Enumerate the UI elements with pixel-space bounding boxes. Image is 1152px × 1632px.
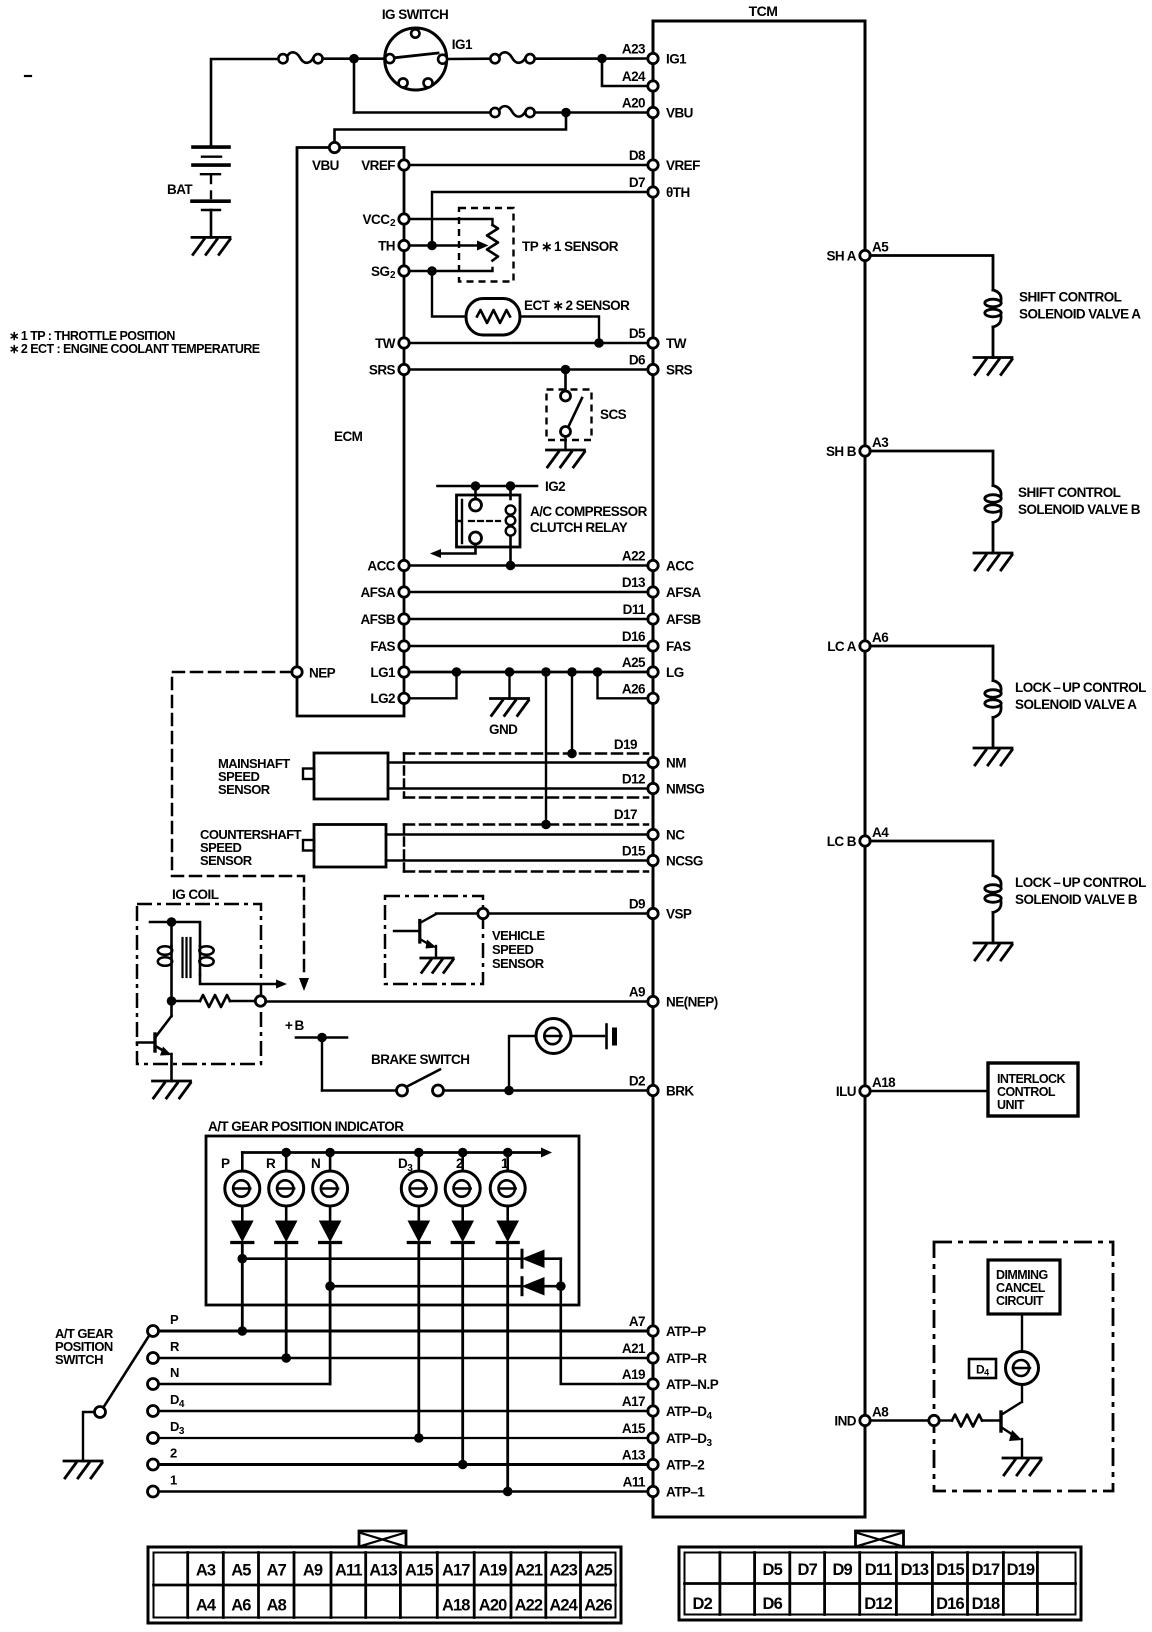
wire +B stub <box>296 1036 347 1039</box>
TCM pin D5 TW <box>648 338 658 348</box>
svg-text:LC B: LC B <box>827 834 857 849</box>
svg-text:AFSB: AFSB <box>360 612 395 627</box>
svg-text:SOLENOID VALVE A: SOLENOID VALVE A <box>1019 307 1141 322</box>
svg-text:D2: D2 <box>629 1074 645 1089</box>
node ig coil top <box>167 917 177 927</box>
ground solenoid <box>974 553 1012 570</box>
node coil-ACC junction <box>506 561 516 571</box>
wire VBU to ECM <box>335 113 567 143</box>
wire bus to lamp 2 <box>285 1153 288 1172</box>
TCM pin D9 VSP <box>648 908 658 918</box>
svg-text:INTERLOCK: INTERLOCK <box>997 1072 1065 1086</box>
svg-text:A7: A7 <box>267 1562 287 1580</box>
wire coil to ground <box>992 327 995 358</box>
switch contact D <box>148 1433 159 1444</box>
svg-text:A6: A6 <box>231 1597 251 1615</box>
node bus junction <box>414 1148 424 1158</box>
switch contact P <box>148 1326 159 1337</box>
TCM pin NM <box>648 757 658 767</box>
wire bus to lamp 4 <box>417 1153 420 1172</box>
wire ATP-P <box>159 1330 649 1333</box>
IG switch <box>385 28 447 90</box>
resistor dimming <box>952 1415 982 1427</box>
node LG-GND <box>505 667 515 677</box>
node bus junction <box>503 1148 513 1158</box>
svg-text:SENSOR: SENSOR <box>218 782 271 797</box>
TCM pin NC <box>648 829 658 839</box>
svg-text:ATP–P: ATP–P <box>666 1324 706 1339</box>
node LG-shield2 <box>541 667 551 677</box>
ground solenoid <box>974 748 1012 765</box>
wire relay contact feed <box>474 486 477 498</box>
svg-text:A17: A17 <box>622 1394 645 1409</box>
connector A grid <box>186 1553 189 1618</box>
svg-text:ATP–R: ATP–R <box>666 1351 707 1366</box>
wire secondary output with arrow <box>200 975 276 984</box>
A/T gear position indicator box <box>206 1136 579 1305</box>
node IG2 right <box>506 481 516 491</box>
wire fuse3 to pin A20 <box>535 111 648 114</box>
wire SG2 junction down to ECT <box>432 271 466 317</box>
diode under lamp 4 <box>408 1221 429 1241</box>
wire NC <box>386 833 648 836</box>
svg-text:A6: A6 <box>872 630 889 645</box>
svg-text:A15: A15 <box>622 1421 646 1436</box>
wire bus to lamp 3 <box>329 1153 332 1172</box>
NEP dashed route <box>172 672 304 978</box>
TCM pin A11 ATP&#8211;1 <box>648 1486 658 1496</box>
solenoid coil <box>993 486 1001 496</box>
battery symbol at lamp <box>605 1025 608 1049</box>
svg-text:A21: A21 <box>622 1341 646 1356</box>
ground solenoid <box>974 943 1012 960</box>
wire +B down to brake switch <box>321 1038 323 1091</box>
A/C compressor clutch relay box <box>457 495 521 547</box>
ignition coil transformer <box>170 922 173 946</box>
ECM pin SRS <box>399 364 409 374</box>
TCM pin A5 SH A <box>860 250 870 260</box>
junction node top rail <box>349 54 359 64</box>
svg-text:TP ∗ 1 SENSOR: TP ∗ 1 SENSOR <box>522 239 619 254</box>
svg-text:A9: A9 <box>303 1562 323 1580</box>
wire ATP-N <box>159 1383 331 1385</box>
svg-text:D5: D5 <box>763 1561 783 1579</box>
svg-text:IND: IND <box>834 1413 856 1428</box>
wire switch to fuse2 <box>447 57 490 60</box>
svg-text:A18: A18 <box>442 1597 470 1615</box>
ECM pin TW <box>399 338 409 348</box>
svg-text:D6: D6 <box>763 1595 783 1613</box>
svg-text:TW: TW <box>666 336 687 351</box>
svg-text:CIRCUIT: CIRCUIT <box>996 1294 1044 1308</box>
ground GND <box>491 699 529 716</box>
svg-text:AFSA: AFSA <box>360 585 395 600</box>
connector A outer <box>148 1547 621 1623</box>
svg-text:LG1: LG1 <box>370 665 396 680</box>
node +B <box>317 1033 327 1043</box>
wire VBU feed <box>354 111 490 114</box>
solenoid coil <box>993 681 1001 691</box>
interlock control unit box <box>988 1063 1078 1116</box>
dimming cancel dash-dot box <box>934 1242 1113 1491</box>
wire relay coil to ACC <box>509 536 512 566</box>
svg-text:A3: A3 <box>872 435 889 450</box>
terminal NE output <box>255 996 265 1006</box>
ground battery <box>192 237 230 254</box>
svg-text:VBU: VBU <box>666 106 693 121</box>
diode D row2 <box>523 1278 544 1295</box>
svg-text:VSP: VSP <box>666 907 692 922</box>
svg-text:R: R <box>266 1156 276 1171</box>
svg-text:ECT ∗ 2 SENSOR: ECT ∗ 2 SENSOR <box>524 298 630 313</box>
wire N.P column <box>561 1259 648 1384</box>
solenoid coil <box>993 876 1001 886</box>
svg-text:2: 2 <box>456 1156 463 1171</box>
ECM pin TH <box>399 240 409 250</box>
diode under lamp 5 <box>452 1221 473 1241</box>
TCM pin A13 ATP&#8211;2 <box>648 1459 658 1469</box>
indicator lamp D <box>401 1171 436 1206</box>
wire battery to top rail <box>211 59 279 147</box>
connector D grid <box>719 1553 722 1615</box>
svg-text:TW: TW <box>375 336 396 351</box>
svg-text:A8: A8 <box>872 1405 889 1420</box>
svg-text:A26: A26 <box>584 1597 612 1615</box>
svg-text:D8: D8 <box>629 148 646 163</box>
svg-text:ACC: ACC <box>367 558 395 573</box>
wire ATP-1 <box>159 1490 649 1492</box>
junction node A23/A24 <box>597 54 607 64</box>
ECM module box <box>297 148 404 717</box>
svg-text:IG1: IG1 <box>666 52 687 67</box>
svg-text:CLUTCH RELAY: CLUTCH RELAY <box>530 520 628 535</box>
TCM pin D15 NCSG <box>648 855 658 865</box>
wire IND <box>870 1419 929 1421</box>
svg-text:SRS: SRS <box>666 363 693 378</box>
ECM pin FAS <box>399 641 409 651</box>
node SRS junction <box>561 365 571 375</box>
wire coil to ground <box>992 523 995 554</box>
svg-text:D9: D9 <box>629 897 645 912</box>
svg-text:D12: D12 <box>864 1595 892 1613</box>
wire to brake switch <box>322 1089 397 1091</box>
ground switch <box>64 1461 102 1478</box>
svg-text:LC A: LC A <box>827 639 857 654</box>
svg-text:N: N <box>170 1365 179 1380</box>
svg-text:SH A: SH A <box>826 248 856 263</box>
wire SG2 to potentiometer <box>409 268 493 271</box>
relay contact terminals <box>470 499 482 511</box>
ground dimming <box>1003 1458 1041 1475</box>
svg-text:BAT: BAT <box>167 182 193 197</box>
wire ACC <box>409 564 648 567</box>
wire solenoid at 451 <box>870 451 993 486</box>
svg-text:NEP: NEP <box>309 666 336 681</box>
svg-text:NE(NEP): NE(NEP) <box>666 995 718 1010</box>
svg-text:FAS: FAS <box>370 639 395 654</box>
label D4 box <box>969 1359 996 1378</box>
svg-text:A23: A23 <box>622 42 646 57</box>
svg-text:NCSG: NCSG <box>666 854 703 869</box>
svg-text:NC: NC <box>666 828 685 843</box>
svg-text:A/T GEAR POSITION INDICATOR: A/T GEAR POSITION INDICATOR <box>208 1119 404 1134</box>
wire ATP-2 <box>159 1463 649 1466</box>
wire lamp to diode <box>329 1206 332 1221</box>
wire lamp to diode <box>461 1206 464 1221</box>
svg-text:A/C COMPRESSOR: A/C COMPRESSOR <box>530 504 648 519</box>
svg-text:A24: A24 <box>622 69 646 84</box>
svg-text:SH B: SH B <box>826 444 857 459</box>
wire NE(NEP) to TCM <box>266 1000 648 1002</box>
svg-text:D12: D12 <box>622 772 645 787</box>
ground IG coil <box>153 1081 191 1098</box>
wire bus to lamp 6 <box>506 1153 509 1172</box>
ECM pin AFSB <box>399 614 409 624</box>
svg-text:SOLENOID VALVE B: SOLENOID VALVE B <box>1018 502 1141 517</box>
wire lamp to diode <box>417 1206 420 1221</box>
battery BAT <box>193 145 229 149</box>
indicator lamp 1 <box>490 1171 525 1206</box>
TCM pin D2 BRK <box>648 1085 658 1095</box>
TCM pin D16 FAS <box>648 641 658 651</box>
svg-text:TH: TH <box>378 238 395 253</box>
svg-text:A20: A20 <box>479 1597 507 1615</box>
node brake lamp junction <box>504 1086 514 1096</box>
node ig coil resistor junction <box>167 996 177 1006</box>
node shield1-D19 <box>567 749 577 759</box>
svg-text:FAS: FAS <box>666 639 691 654</box>
TCM pin A22 ACC <box>648 560 658 570</box>
svg-text:A26: A26 <box>622 681 646 696</box>
solenoid coil <box>993 290 1001 300</box>
svg-text:D19: D19 <box>614 737 637 752</box>
wire lamp to battery symbol <box>572 1035 605 1037</box>
wire SRS <box>409 368 648 371</box>
svg-text:A22: A22 <box>622 549 645 564</box>
node SG2 junction <box>427 266 437 276</box>
svg-text:LG2: LG2 <box>370 691 395 706</box>
svg-text:A24: A24 <box>549 1597 578 1615</box>
wire diode row 2 <box>330 1285 521 1288</box>
svg-text:1: 1 <box>170 1473 177 1488</box>
svg-text:D13: D13 <box>901 1561 929 1579</box>
TCM pin A9 NE(NEP) <box>648 996 658 1006</box>
wire 1 column <box>506 1243 509 1492</box>
svg-text:A13: A13 <box>622 1448 646 1463</box>
svg-text:SOLENOID VALVE B: SOLENOID VALVE B <box>1015 892 1138 907</box>
wire LG2 jog <box>409 672 457 698</box>
ECM terminal NEP <box>292 667 302 677</box>
svg-text:A13: A13 <box>369 1562 397 1580</box>
node shield2-D17 <box>541 820 551 830</box>
wire VREF <box>409 164 648 166</box>
switch common contact <box>95 1407 106 1418</box>
wire fuse2 to pin A23 <box>535 57 648 60</box>
diode under lamp 1 <box>232 1221 253 1241</box>
wire coil to ground <box>992 718 995 749</box>
svg-text:D15: D15 <box>622 844 646 859</box>
svg-text:ATP–1: ATP–1 <box>666 1485 705 1500</box>
svg-text:D17: D17 <box>972 1561 1000 1579</box>
svg-text:A4: A4 <box>872 825 889 840</box>
wire P column <box>241 1243 244 1332</box>
svg-text:θTH: θTH <box>666 185 690 200</box>
ECM pin SG <box>399 266 409 276</box>
svg-text:NM: NM <box>666 756 686 771</box>
TCM pin A26 <box>648 693 658 703</box>
wire ECT to TW line <box>520 317 599 344</box>
VSS transistor <box>394 930 419 932</box>
transistor igniter <box>170 1001 173 1016</box>
TCM pin D11 AFSB <box>648 614 658 624</box>
lamp D4 <box>1006 1352 1039 1385</box>
wire coil to ground <box>992 913 995 944</box>
connector D tab <box>856 1531 904 1547</box>
svg-text:A11: A11 <box>623 1475 646 1490</box>
SCS dashed box <box>547 390 592 441</box>
TCM pin A25 LG <box>648 667 658 677</box>
TCM pin D12 NMSG <box>648 783 658 793</box>
ground SCS <box>547 450 585 467</box>
svg-text:SENSOR: SENSOR <box>200 853 253 868</box>
fuse F2 <box>490 54 499 63</box>
potentiometer TP sensor <box>487 225 498 261</box>
switch contact 2 <box>148 1459 159 1470</box>
svg-text:IG COIL: IG COIL <box>172 887 219 902</box>
TCM pin A4 LC B <box>860 836 870 846</box>
wire ILU to interlock unit <box>870 1090 988 1092</box>
svg-text:SPEED: SPEED <box>492 942 533 957</box>
svg-text:N: N <box>311 1156 320 1171</box>
svg-text:NMSG: NMSG <box>666 782 704 797</box>
indicator lamp R <box>269 1171 304 1206</box>
brake switch <box>397 1085 408 1096</box>
wire VSP <box>489 912 649 914</box>
node TH junction <box>427 241 437 251</box>
svg-text:SRS: SRS <box>369 362 396 377</box>
svg-text:D9: D9 <box>833 1561 853 1579</box>
wire fuse1 to junction <box>323 57 386 60</box>
TCM pin A23 IG1 <box>648 53 658 63</box>
svg-text:SENSOR: SENSOR <box>492 956 545 971</box>
node bus junction <box>325 1148 335 1158</box>
wire solenoid at 255.5 <box>870 256 993 291</box>
TCM pin A8 IND <box>860 1415 870 1425</box>
svg-text:D13: D13 <box>622 575 646 590</box>
svg-text:BRK: BRK <box>666 1084 694 1099</box>
TCM pin A20 VBU <box>648 107 658 117</box>
stray mark <box>25 75 31 77</box>
svg-text:VREF: VREF <box>666 158 700 173</box>
svg-text:∗ 2 ECT : ENGINE COOLANT TEMPE: ∗ 2 ECT : ENGINE COOLANT TEMPERATURE <box>9 342 260 356</box>
svg-text:ECM: ECM <box>334 429 363 444</box>
svg-text:SHIFT CONTROL: SHIFT CONTROL <box>1019 290 1122 305</box>
svg-text:D16: D16 <box>936 1595 964 1613</box>
wire LG to mainshaft shield <box>571 672 573 754</box>
mainshaft speed sensor body <box>314 753 388 799</box>
ECT sensor body <box>466 299 520 336</box>
wire lamp to diode <box>285 1206 288 1221</box>
svg-text:A4: A4 <box>196 1597 217 1615</box>
svg-text:D15: D15 <box>936 1561 964 1579</box>
diode under lamp 3 <box>320 1221 341 1241</box>
node P-row1 <box>238 1254 248 1264</box>
wire 8TH to TH junction <box>432 192 648 246</box>
TCM pin A17 ATP&#8211;D<tspan font-size="10" dy="3">4</tspan> <box>648 1406 658 1416</box>
ground solenoid <box>974 358 1012 375</box>
wire SCS to ground <box>564 437 566 451</box>
svg-text:SCS: SCS <box>600 407 627 422</box>
ECM pin LG1 <box>399 667 409 677</box>
wire A24 jog <box>602 59 648 87</box>
svg-text:A5: A5 <box>231 1562 251 1580</box>
indicator lamp N <box>313 1171 348 1206</box>
wire AFSB <box>409 618 648 621</box>
svg-text:A19: A19 <box>479 1562 507 1580</box>
svg-text:+ B: + B <box>285 1018 304 1033</box>
ECM pin ACC <box>399 560 409 570</box>
svg-text:1: 1 <box>501 1156 509 1171</box>
svg-text:D19: D19 <box>1007 1561 1035 1579</box>
wire bus to lamp 5 <box>461 1153 464 1172</box>
svg-text:A8: A8 <box>267 1597 287 1615</box>
vehicle speed sensor dash-dot box <box>385 896 483 984</box>
TCM pin D8 VREF <box>648 160 658 170</box>
svg-text:VBU: VBU <box>312 158 339 173</box>
svg-text:A18: A18 <box>872 1075 896 1090</box>
dimming cancel circuit box <box>988 1260 1060 1314</box>
wire emitter to ground <box>170 1054 173 1081</box>
svg-text:∗ 1 TP : THROTTLE POSITION: ∗ 1 TP : THROTTLE POSITION <box>9 329 175 343</box>
svg-text:D18: D18 <box>972 1595 1000 1613</box>
switch contact N <box>148 1379 159 1390</box>
svg-text:D16: D16 <box>622 629 646 644</box>
node bus junction <box>458 1148 468 1158</box>
switch lever <box>104 1337 149 1407</box>
TCM pin A24 <box>648 81 658 91</box>
indicator lamp P <box>225 1171 260 1206</box>
wire relay contact output with arrow <box>440 544 476 554</box>
switch contact R <box>148 1353 159 1364</box>
wire NCSG <box>386 859 648 862</box>
wire N column <box>329 1243 332 1385</box>
svg-text:A20: A20 <box>622 96 645 111</box>
transistor dimming <box>999 1412 1002 1431</box>
svg-text:UNIT: UNIT <box>997 1098 1025 1112</box>
fuse F3 <box>490 108 499 117</box>
wire NM <box>388 761 648 764</box>
wire A26 jog <box>598 672 649 698</box>
wire LG1 <box>409 671 648 674</box>
svg-text:CONTROL: CONTROL <box>997 1085 1056 1099</box>
svg-text:LOCK – UP CONTROL: LOCK – UP CONTROL <box>1015 875 1146 890</box>
wire VBU branch down <box>353 59 356 113</box>
VSS output terminal <box>436 912 478 914</box>
wire bus to lamp 1 <box>241 1153 244 1172</box>
wire NMSG <box>388 787 648 790</box>
svg-text:TCM: TCM <box>749 3 778 19</box>
svg-text:ILU: ILU <box>836 1084 856 1099</box>
TCM pin D13 AFSA <box>648 587 658 597</box>
SCS switch contacts <box>561 391 571 401</box>
svg-text:A9: A9 <box>629 985 645 1000</box>
svg-text:SOLENOID VALVE A: SOLENOID VALVE A <box>1015 697 1137 712</box>
TCM pin D7 &#952;TH <box>648 187 658 197</box>
wire lamp to diode <box>506 1206 509 1221</box>
TP sensor dashed box <box>459 208 514 282</box>
svg-text:A5: A5 <box>872 240 889 255</box>
wire LG to countershaft shield <box>545 672 547 825</box>
